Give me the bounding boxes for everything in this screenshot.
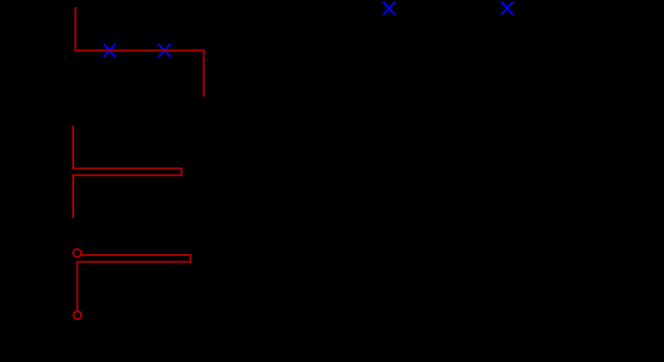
wire W1: top-left net (down, right, down), drawn over the markers bbox=[75, 7, 203, 97]
no-connect marker X3 (floating, top) bbox=[383, 2, 395, 15]
no-connect marker X4 (floating, top) bbox=[501, 2, 513, 15]
terminal P2 (open circle) bbox=[74, 311, 82, 319]
wire W3: flat open loop net from terminal P1 bbox=[77, 255, 190, 311]
no-connect marker X2 on wire W1 bbox=[159, 44, 171, 57]
no-connect marker X1 on wire W1 bbox=[104, 44, 116, 57]
terminal P1 (open circle) bbox=[73, 249, 81, 257]
wire W2: middle-left flat open loop net bbox=[73, 126, 181, 218]
